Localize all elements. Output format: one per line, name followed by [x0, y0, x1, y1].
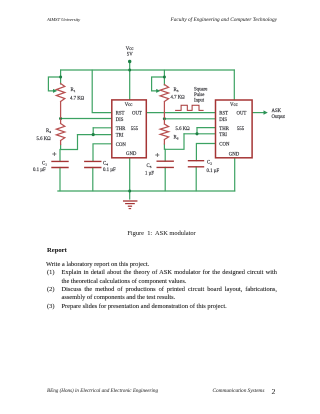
wire U1 OUT to U2 RST — [146, 112, 215, 114]
svg-text:5V: 5V — [127, 52, 133, 57]
svg-text:CON: CON — [219, 143, 230, 148]
svg-text:555: 555 — [131, 127, 139, 132]
wire U2 CON to C2 — [196, 144, 215, 161]
svg-text:ASK: ASK — [272, 109, 282, 114]
svg-text:R1: R1 — [71, 88, 76, 93]
svg-text:5.6 KΩ: 5.6 KΩ — [37, 137, 52, 142]
arrow ASK output head — [264, 110, 268, 114]
wire U2 GND riser — [234, 158, 236, 191]
wire U1 TRI — [78, 134, 113, 136]
wire Vcc rail — [61, 69, 235, 71]
wire ground rail — [58, 190, 235, 192]
IC U1 555 — [112, 100, 147, 158]
node U1 THR-TRI junction — [92, 133, 95, 136]
wire U1 Vcc riser — [129, 70, 131, 100]
svg-text:DIS: DIS — [219, 118, 227, 123]
svg-text:THR: THR — [116, 127, 126, 132]
label C1 plus — [53, 152, 56, 155]
wire R1 wiper loop — [48, 77, 60, 91]
svg-text:GND: GND — [126, 152, 137, 157]
svg-text:TRI: TRI — [116, 133, 124, 138]
capacitor C2 — [189, 161, 204, 167]
resistor R3 — [160, 85, 168, 118]
svg-text:DIS: DIS — [116, 118, 124, 123]
wire U2 TRI — [184, 133, 216, 135]
node Vcc terminal — [128, 60, 131, 63]
wire C5 to ground — [164, 167, 166, 191]
svg-text:5.6 KΩ: 5.6 KΩ — [176, 127, 191, 132]
svg-text:OUT: OUT — [237, 111, 247, 116]
capacitor C4 — [85, 161, 101, 167]
svg-text:Pulse: Pulse — [194, 93, 204, 98]
svg-text:THR: THR — [219, 127, 229, 132]
svg-text:Vcc: Vcc — [125, 103, 133, 108]
footer right — [213, 388, 265, 394]
footer left — [47, 388, 158, 394]
wire U1 THR-TRI tie — [92, 128, 94, 135]
svg-text:C2: C2 — [207, 161, 212, 166]
wire Vcc terminal stub — [129, 62, 131, 71]
svg-text:R4: R4 — [46, 129, 51, 134]
svg-text:555: 555 — [237, 127, 245, 132]
wire U2 Vcc drop — [233, 70, 235, 100]
svg-text:RST: RST — [219, 111, 228, 116]
svg-text:CON: CON — [116, 143, 127, 148]
svg-text:R6: R6 — [174, 136, 179, 141]
wire C1 riser — [59, 150, 61, 162]
wire U2 THR-TRI tie — [196, 128, 198, 134]
node R1 wiper junction — [59, 76, 62, 79]
resistor R1 — [56, 84, 64, 118]
node R1-R4-DIS junction — [59, 117, 62, 120]
figure caption — [42, 230, 281, 237]
svg-text:Input: Input — [194, 99, 205, 104]
node U2 THR-TRI junction — [195, 132, 198, 135]
body text — [46, 261, 149, 269]
svg-text:1 µF: 1 µF — [145, 172, 154, 177]
svg-text:Vcc: Vcc — [126, 47, 134, 52]
wire R3 wiper loop — [152, 77, 165, 91]
wire C1 to ground — [59, 168, 61, 192]
resistor R4 — [56, 120, 64, 145]
report heading — [47, 247, 67, 254]
wire U1 CON to C4 — [93, 144, 112, 162]
svg-text:0.1 µF: 0.1 µF — [207, 169, 220, 174]
svg-text:TRI: TRI — [219, 133, 227, 138]
page number — [272, 387, 276, 396]
IC U2 555 — [216, 100, 253, 158]
label C5 plus — [156, 153, 159, 156]
wire U2 THR — [197, 127, 216, 129]
svg-text:0.1 µF: 0.1 µF — [103, 168, 116, 173]
svg-text:4.7 KΩ: 4.7 KΩ — [171, 96, 186, 101]
svg-text:C5: C5 — [147, 164, 152, 169]
arrow R3 wiper — [156, 89, 160, 93]
arrow R1 wiper — [53, 89, 57, 93]
capacitor C1 — [52, 161, 68, 167]
node R3 wiper junction — [163, 76, 166, 79]
node ground junction — [128, 190, 131, 193]
svg-text:R3: R3 — [174, 88, 179, 93]
svg-text:0.1 µF: 0.1 µF — [33, 168, 46, 173]
capacitor C5 — [157, 161, 173, 167]
svg-text:C4: C4 — [103, 162, 108, 167]
wire U1 GND riser — [129, 158, 131, 191]
svg-text:4.7 KΩ: 4.7 KΩ — [70, 97, 85, 102]
svg-text:Square: Square — [194, 88, 207, 93]
wire R6 bottom to TRI riser — [164, 134, 184, 150]
wire C4 to ground — [92, 168, 94, 192]
wire R1 top lead — [60, 70, 62, 84]
resistor R6 — [160, 120, 168, 144]
ground stem — [129, 191, 131, 199]
wire R4 bottom to TRI riser — [61, 135, 78, 150]
wire C2 to ground — [195, 167, 197, 191]
header right — [150, 17, 277, 23]
wire U1 THR — [93, 127, 112, 129]
wire C5 riser — [164, 149, 166, 161]
node R3-R6-DIS junction — [163, 117, 166, 120]
header left — [47, 17, 80, 22]
wire ASK output lead — [252, 112, 264, 114]
svg-text:OUT: OUT — [132, 111, 142, 116]
svg-text:RST: RST — [116, 111, 125, 116]
wire U2 DIS — [164, 118, 215, 120]
wire U1 RST from rail — [92, 70, 112, 113]
svg-text:GND: GND — [229, 153, 240, 158]
signal square pulse input — [176, 105, 204, 110]
node Vcc rail junction — [128, 69, 131, 72]
wire R3 top lead — [163, 70, 165, 85]
svg-text:C1: C1 — [42, 162, 47, 167]
wire U1 DIS — [61, 118, 112, 120]
svg-text:Vcc: Vcc — [230, 103, 238, 108]
ground — [124, 201, 137, 209]
svg-text:Output: Output — [272, 115, 286, 120]
